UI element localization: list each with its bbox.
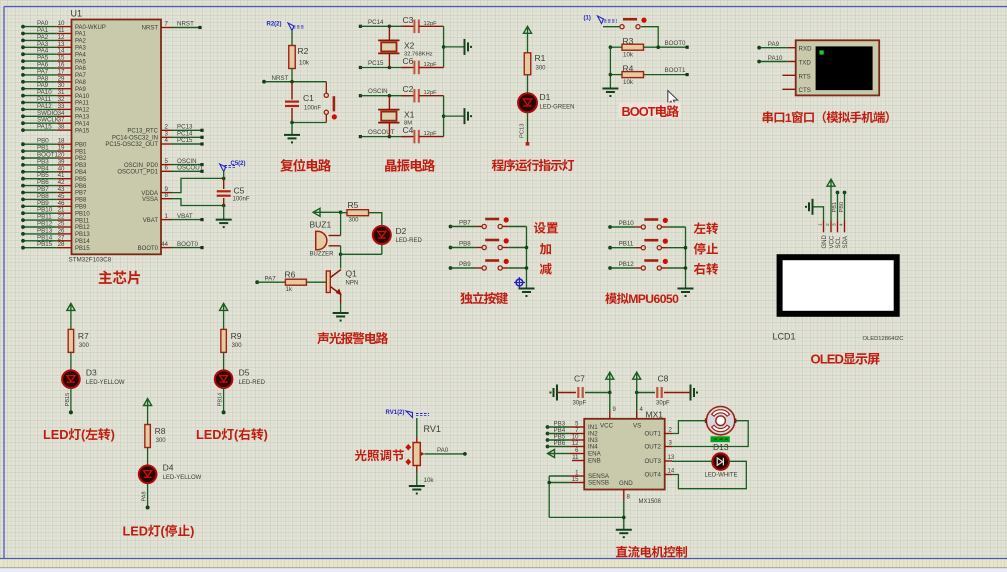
wire VCC down to pin 9 (610, 393, 617, 419)
svg-text:C6: C6 (403, 56, 414, 66)
pin PB6 (42) wire and node (21, 179, 87, 190)
svg-text:C2: C2 (403, 84, 414, 94)
svg-text:PA11: PA11 (75, 101, 89, 107)
svg-text:C1: C1 (303, 93, 314, 103)
svg-text:BUZZER: BUZZER (310, 252, 335, 258)
power terminal for D1 (524, 26, 532, 53)
svg-text:R3: R3 (623, 36, 634, 46)
ground of MPU buttons (678, 288, 694, 290)
svg-text:PB2: PB2 (75, 156, 87, 162)
wire R9 to D5 (223, 352, 225, 370)
svg-text:PA10: PA10 (75, 94, 90, 100)
svg-text:BOOT0: BOOT0 (665, 40, 687, 47)
label 声光报警电路 (317, 332, 388, 344)
svg-text:PA4: PA4 (75, 52, 87, 58)
svg-text:(: ( (161, 524, 166, 539)
svg-text:NPN: NPN (346, 281, 359, 287)
svg-text:12pF: 12pF (424, 62, 438, 68)
label 独立按键 (460, 292, 508, 304)
svg-text:LED-RED: LED-RED (239, 380, 266, 386)
push button PB10 (635, 218, 668, 229)
wire wiper to PA0 (425, 447, 467, 456)
pin CTS stub (782, 88, 795, 90)
net flag (1) (584, 16, 618, 24)
wire bus vertical (MPU buttons) (685, 227, 687, 288)
wire RV1 bottom (416, 466, 418, 487)
svg-text:14: 14 (668, 469, 675, 475)
pin PC15 (4) wire and node (105, 137, 203, 148)
svg-text:44: 44 (161, 241, 168, 248)
pin VSSA (8) wire to C5 (142, 192, 224, 206)
pin PB0 (18) wire and node (21, 138, 87, 149)
svg-text:D1: D1 (540, 92, 551, 102)
svg-text:R7: R7 (78, 331, 89, 341)
label 直流电机控制 (616, 546, 687, 558)
svg-text:6: 6 (165, 165, 169, 172)
svg-text:C5(2): C5(2) (231, 161, 246, 167)
svg-text:PB5: PB5 (75, 177, 87, 183)
svg-text:3: 3 (832, 223, 838, 226)
svg-text:GND: GND (822, 235, 828, 249)
svg-text:OSCOUT_PD1: OSCOUT_PD1 (117, 170, 158, 176)
svg-text:PB8: PB8 (459, 241, 471, 248)
pin PA8 (29) wire and node (21, 75, 86, 86)
node OSCOUT terminal (359, 129, 395, 138)
svg-text:(1): (1) (584, 16, 591, 22)
svg-text:PC14: PC14 (368, 19, 384, 26)
wire PA7 to R6 (257, 281, 285, 283)
junction node at C1 bottom (290, 121, 294, 125)
wire R8 to D4 (147, 448, 149, 466)
svg-text:D: D (212, 427, 221, 442)
resistor R2 10k (289, 46, 310, 69)
wire R4 left (610, 74, 622, 76)
wire PB11 to button (610, 247, 635, 249)
label LED灯(右转) (196, 427, 268, 442)
capacitor C3 12pF (402, 15, 444, 33)
pin OSCOUT (6) wire and node (117, 165, 203, 176)
wire PB5 to IN3, pin 10 (548, 435, 585, 441)
pin GND (8) wire (624, 490, 631, 530)
svg-text:1: 1 (818, 223, 824, 226)
pin PB15 (28) wire and node (21, 241, 90, 252)
ground (rotated) right of C8 (664, 385, 698, 401)
junction node PB12 bus (684, 266, 688, 270)
pin labels GND VCC SCL SDA (rotated) (822, 235, 849, 249)
capacitor C6 12pF (402, 56, 444, 74)
junction node PC14 (388, 25, 392, 29)
label 复位电路 (280, 159, 331, 172)
svg-text:GND: GND (619, 480, 633, 487)
resistor R3 10k (622, 36, 644, 59)
wire to BOOT button (603, 26, 620, 28)
diode D5 LED-RED (215, 367, 266, 388)
wire SENS join vertical (548, 476, 550, 517)
label LED灯(左转) (43, 427, 115, 442)
power terminal (left arrow) (313, 208, 341, 216)
svg-text:PB11: PB11 (619, 241, 634, 248)
pin BOOT0 (44) wire and node (138, 241, 204, 252)
svg-text:OUT3: OUT3 (644, 458, 661, 465)
svg-text:R8: R8 (155, 426, 166, 436)
svg-text:NRST: NRST (142, 26, 159, 32)
svg-text:D13: D13 (713, 442, 729, 452)
wire to ground (444, 115, 465, 117)
capacitor C4 12pF (402, 125, 444, 143)
power terminal for R8 (144, 399, 152, 425)
label OLED显示屏 (811, 352, 880, 367)
wire PC15 row (360, 67, 409, 69)
svg-text:8: 8 (165, 192, 169, 199)
wire button PB10 to bus (667, 226, 685, 228)
svg-text:300: 300 (349, 218, 360, 224)
resistor R7 300 (68, 329, 89, 352)
power terminal for R9 (220, 303, 228, 329)
ground of reset circuit (284, 123, 300, 144)
push button PB7 (476, 217, 509, 228)
wire bus vertical (buttons) (526, 227, 528, 289)
pin PA7 (17) wire and node (21, 68, 86, 79)
ground under RV1 (409, 485, 425, 487)
svg-text:PA0-WKUP: PA0-WKUP (75, 25, 106, 31)
svg-text:300: 300 (536, 66, 547, 72)
svg-text:PA0: PA0 (437, 447, 449, 454)
svg-text:100nF: 100nF (304, 106, 321, 112)
svg-text:12pF: 12pF (424, 21, 438, 27)
wire OUT1 (pin 2) to motor left (665, 421, 706, 434)
junction node SENSB (547, 481, 551, 485)
svg-text:10k: 10k (623, 79, 634, 86)
svg-text:PB15: PB15 (37, 241, 53, 248)
svg-text:IN4: IN4 (588, 444, 598, 451)
pin PA0 (10) wire and node (21, 20, 106, 31)
svg-text:CTS: CTS (799, 87, 811, 94)
junction node PC15 (388, 66, 392, 70)
pin PA3 (13) wire and node (21, 41, 86, 52)
svg-text:PC13_RTC: PC13_RTC (127, 129, 158, 135)
crystal X1 8M (378, 96, 415, 137)
bottom window strip (0, 568, 1007, 572)
svg-text:4: 4 (165, 137, 169, 144)
capacitor C8 30pF (637, 374, 670, 407)
svg-text:OLED12864I2C: OLED12864I2C (863, 336, 904, 342)
pin BOOT1 (20) wire and node (21, 152, 87, 163)
diode D3 LED-YELLOW (62, 367, 125, 388)
svg-text:VS: VS (633, 423, 641, 430)
svg-text:100nF: 100nF (233, 197, 250, 203)
svg-text:D: D (835, 352, 844, 367)
motor speed indicator (green) (711, 436, 730, 442)
svg-text:R2: R2 (298, 46, 309, 56)
svg-text:D2: D2 (396, 226, 407, 236)
svg-text:2: 2 (165, 124, 169, 131)
pin PC13 (2) wire and node (127, 124, 203, 135)
svg-text:PA7: PA7 (75, 73, 87, 79)
svg-text:RXD: RXD (799, 46, 813, 53)
wire OSCOUT row (360, 136, 409, 138)
svg-text:VBAT: VBAT (143, 218, 159, 224)
wire R6 to Q1 base (306, 281, 326, 283)
push button BOOT (620, 18, 647, 29)
svg-text:32.768KHz: 32.768KHz (404, 51, 433, 57)
diode D2 LED-RED (373, 226, 423, 244)
svg-text:PB14: PB14 (218, 393, 224, 407)
junction node collector net (339, 253, 343, 257)
push button PB12 (635, 259, 668, 270)
svg-text:VCC: VCC (829, 235, 835, 248)
label 晶振电路 (385, 159, 435, 172)
net flag R2(2) (267, 22, 306, 31)
label 右转 (694, 263, 718, 275)
svg-text:R1: R1 (535, 53, 546, 63)
svg-text:C8: C8 (658, 374, 669, 384)
pin PA12 (33) wire and node (21, 103, 90, 114)
ground under Q1 (333, 312, 349, 314)
power terminal at VS (633, 372, 641, 392)
wire PB8 to button (451, 247, 477, 249)
svg-text:PB0: PB0 (839, 202, 845, 213)
wire R2 top (291, 31, 293, 46)
node PA7 terminal (255, 276, 276, 285)
svg-text:30pF: 30pF (573, 401, 587, 407)
svg-text:VBAT: VBAT (177, 213, 193, 220)
label 串口1窗口（模拟手机端） (763, 111, 889, 125)
ground below C5 (216, 206, 232, 229)
label 程序运行指示灯 (492, 159, 574, 171)
pin PB11 (22) wire and node (21, 214, 90, 225)
wire RV1 top (416, 418, 418, 443)
svg-text:PA7: PA7 (265, 276, 277, 283)
pin PA2 (12) wire and node (21, 34, 86, 45)
pin PB1 (19) wire and node (21, 145, 87, 156)
svg-text:PB15: PB15 (65, 393, 71, 407)
junction node BOOT0 (656, 45, 660, 49)
svg-text:C7: C7 (574, 374, 585, 384)
junction node at C5 top (222, 177, 226, 181)
svg-text:PA1: PA1 (75, 32, 87, 38)
svg-text:300: 300 (232, 343, 243, 349)
sheet margin band (bottom, outside border) (0, 559, 1007, 567)
wire button PB9 to bus (508, 267, 526, 269)
svg-text:PA8: PA8 (142, 491, 148, 501)
wire buzzer bottom to collector node (340, 246, 342, 255)
junction node PB11 bus (684, 246, 688, 250)
svg-text:D: D (59, 427, 68, 442)
chip MX1 MX1508 motor driver (584, 410, 665, 506)
display LCD1 OLED12864I2C (780, 257, 897, 314)
svg-text:4: 4 (839, 223, 845, 226)
wire D5 to node, net PB14 (218, 388, 226, 414)
wire PB6 to IN4, pin 12 (548, 441, 585, 447)
svg-text:R2(2): R2(2) (267, 22, 282, 28)
ground (rotated) left of C7 (550, 385, 576, 401)
svg-text:LCD1: LCD1 (773, 332, 796, 342)
wire right vertical (443, 26, 445, 67)
pin RXD wire from PA9 (757, 41, 796, 50)
wire OSCIN row (360, 95, 409, 97)
svg-text:R4: R4 (623, 63, 634, 73)
svg-text:R9: R9 (231, 331, 242, 341)
wire PB12 to button (610, 267, 635, 269)
svg-text:PC13: PC13 (520, 123, 526, 138)
wire button PB7 to bus (508, 226, 526, 228)
node PB11 terminal (608, 241, 634, 250)
svg-text:PB10: PB10 (75, 211, 90, 217)
svg-text:PA6: PA6 (75, 66, 87, 72)
pin PB5 (41) wire and node (21, 172, 87, 183)
resistor R5 300 (347, 200, 369, 224)
pin PB9 (46) wire and node (21, 200, 87, 211)
svg-text:PB15: PB15 (75, 246, 90, 252)
buzzer BUZ1 (310, 220, 341, 258)
OLED pin stubs 1-4 with numbers (818, 220, 845, 232)
wire R2 bottom to NRST node (291, 69, 293, 82)
svg-text:8M: 8M (404, 121, 412, 127)
node PB10 terminal (608, 220, 634, 229)
svg-text:LED-YELLOW: LED-YELLOW (163, 475, 202, 481)
svg-text:1: 1 (165, 213, 169, 220)
junction node GND (622, 516, 626, 520)
node PB4 terminal (546, 427, 566, 435)
svg-text:PC15-OSC32_OUT: PC15-OSC32_OUT (105, 142, 158, 148)
svg-text:PB9: PB9 (75, 205, 87, 211)
power terminal for OLED VCC (827, 179, 835, 220)
label BOOT电路 with highlight (618, 102, 681, 119)
svg-text:30pF: 30pF (656, 401, 670, 407)
chip U1 STM32F103C8 main MCU (72, 20, 162, 255)
svg-text:PA10: PA10 (768, 55, 783, 62)
wire D4 to node, net PA8 (142, 483, 150, 509)
label 主芯片 (99, 271, 140, 285)
label 设置 (534, 222, 558, 234)
pin VDDA (9) wire to C5 (141, 178, 223, 196)
svg-text:OSCIN_PD0: OSCIN_PD0 (124, 163, 159, 169)
pin ENB stub, pin 11 (572, 455, 584, 461)
svg-text:RV1(2): RV1(2) (386, 410, 405, 416)
pin PB14 (27) wire and node (21, 234, 90, 245)
wire PB4 to IN2, pin 7 (548, 428, 585, 434)
mouse cursor (668, 91, 678, 107)
svg-text:PC13: PC13 (177, 124, 193, 131)
svg-text:PA5: PA5 (75, 59, 87, 65)
wire R4 right to BOOT1 (644, 74, 688, 76)
svg-text:LED-RED: LED-RED (396, 238, 423, 244)
node PC14 terminal (359, 19, 384, 28)
svg-text:D: D (139, 524, 148, 539)
pin PB12 (25) wire and node (21, 221, 90, 232)
junction node at R5 left (339, 211, 343, 215)
wire emitter to ground (340, 303, 342, 313)
junction node PB9 bus (525, 266, 529, 270)
svg-text:2: 2 (825, 223, 831, 226)
svg-text:): ) (111, 427, 115, 442)
svg-text:OUT2: OUT2 (644, 444, 661, 451)
pin RTS stub (782, 74, 795, 76)
svg-text:VSSA: VSSA (142, 197, 158, 203)
pin PA11 (32) wire and node (21, 96, 89, 107)
pin PB7 (43) wire and node (21, 186, 87, 197)
pin PA6 (16) wire and node (21, 62, 86, 73)
svg-text:RTS: RTS (799, 73, 811, 80)
svg-text:BUZ1: BUZ1 (310, 220, 332, 230)
svg-text:PA15: PA15 (75, 128, 90, 134)
svg-text:RV1: RV1 (424, 424, 441, 434)
svg-text:BOOT1: BOOT1 (665, 67, 687, 74)
svg-text:T: T (648, 104, 656, 119)
svg-text:38: 38 (58, 124, 65, 131)
ground of BOOT circuit (602, 88, 618, 90)
svg-text:OUT1: OUT1 (644, 431, 661, 438)
svg-text:PB0: PB0 (75, 142, 87, 148)
wire PB7 to button (451, 226, 477, 228)
wire D1 to PC13 terminal (527, 112, 529, 142)
wire OUT2 (pin 3) to motor right (665, 421, 749, 447)
node PB7 terminal (449, 220, 472, 229)
svg-text:0: 0 (672, 292, 679, 306)
svg-text:LED-YELLOW: LED-YELLOW (86, 380, 125, 386)
resistor R8 300 (145, 425, 166, 448)
svg-text:PA9: PA9 (768, 41, 780, 48)
svg-text:SDA: SDA (843, 236, 849, 248)
wire OUT4 (pin 14) loop to D13 right (665, 461, 747, 488)
diode D13 LED-WHITE (705, 453, 738, 478)
pin NRST (7) wire and node (142, 21, 202, 32)
svg-text:1: 1 (785, 111, 792, 125)
svg-text:10k: 10k (299, 60, 310, 67)
svg-text:ENA: ENA (588, 451, 602, 458)
label LED灯(停止) (123, 524, 195, 539)
ground of motor driver (616, 529, 632, 531)
pin PA10 (31) wire and node (21, 89, 90, 100)
pin TXD wire from PA10 (757, 55, 796, 64)
push button PB8 (476, 238, 509, 249)
wire bottom horizontal to D2 (341, 253, 382, 255)
wire bottom to GND node (549, 516, 624, 518)
wire SENSB, pin 15 (549, 477, 584, 483)
wire button PB11 to bus (667, 247, 685, 249)
pin PB8 (45) wire and node (21, 193, 87, 204)
svg-text:SCL: SCL (836, 236, 842, 248)
wire button PB8 to bus (508, 247, 526, 249)
label 左转 (694, 222, 718, 234)
resistor R9 300 (221, 329, 242, 352)
wire R5 left (341, 212, 347, 214)
node PC13 terminal (red square) (526, 142, 530, 146)
motor (DC) (706, 407, 735, 435)
wire PC14 row (360, 25, 409, 27)
diode D4 LED-YELLOW (139, 463, 202, 484)
ground (rotated) (464, 39, 466, 55)
wire PB3 to IN1, pin 5 (548, 422, 585, 428)
svg-text:28: 28 (58, 241, 65, 248)
svg-text:PA12: PA12 (75, 108, 90, 114)
svg-text:D3: D3 (86, 367, 97, 377)
svg-text:PA2: PA2 (75, 39, 87, 45)
pin PA5 (15) wire and node (21, 55, 86, 66)
svg-text:BOOT0: BOOT0 (138, 246, 159, 252)
svg-text:SENSB: SENSB (588, 480, 609, 487)
svg-text:PC15: PC15 (177, 137, 193, 144)
junction node PB8 bus (525, 246, 529, 250)
diode D1 LED-GREEN (518, 92, 575, 112)
svg-text:PB1: PB1 (832, 202, 838, 213)
svg-text:PB6: PB6 (75, 184, 87, 190)
wire R3 left to bus (610, 46, 622, 48)
svg-text:PA8: PA8 (75, 80, 87, 86)
svg-text:X1: X1 (404, 110, 415, 120)
svg-text:15: 15 (572, 477, 579, 483)
wire OUT3 (pin 13) to D13 (665, 455, 713, 461)
